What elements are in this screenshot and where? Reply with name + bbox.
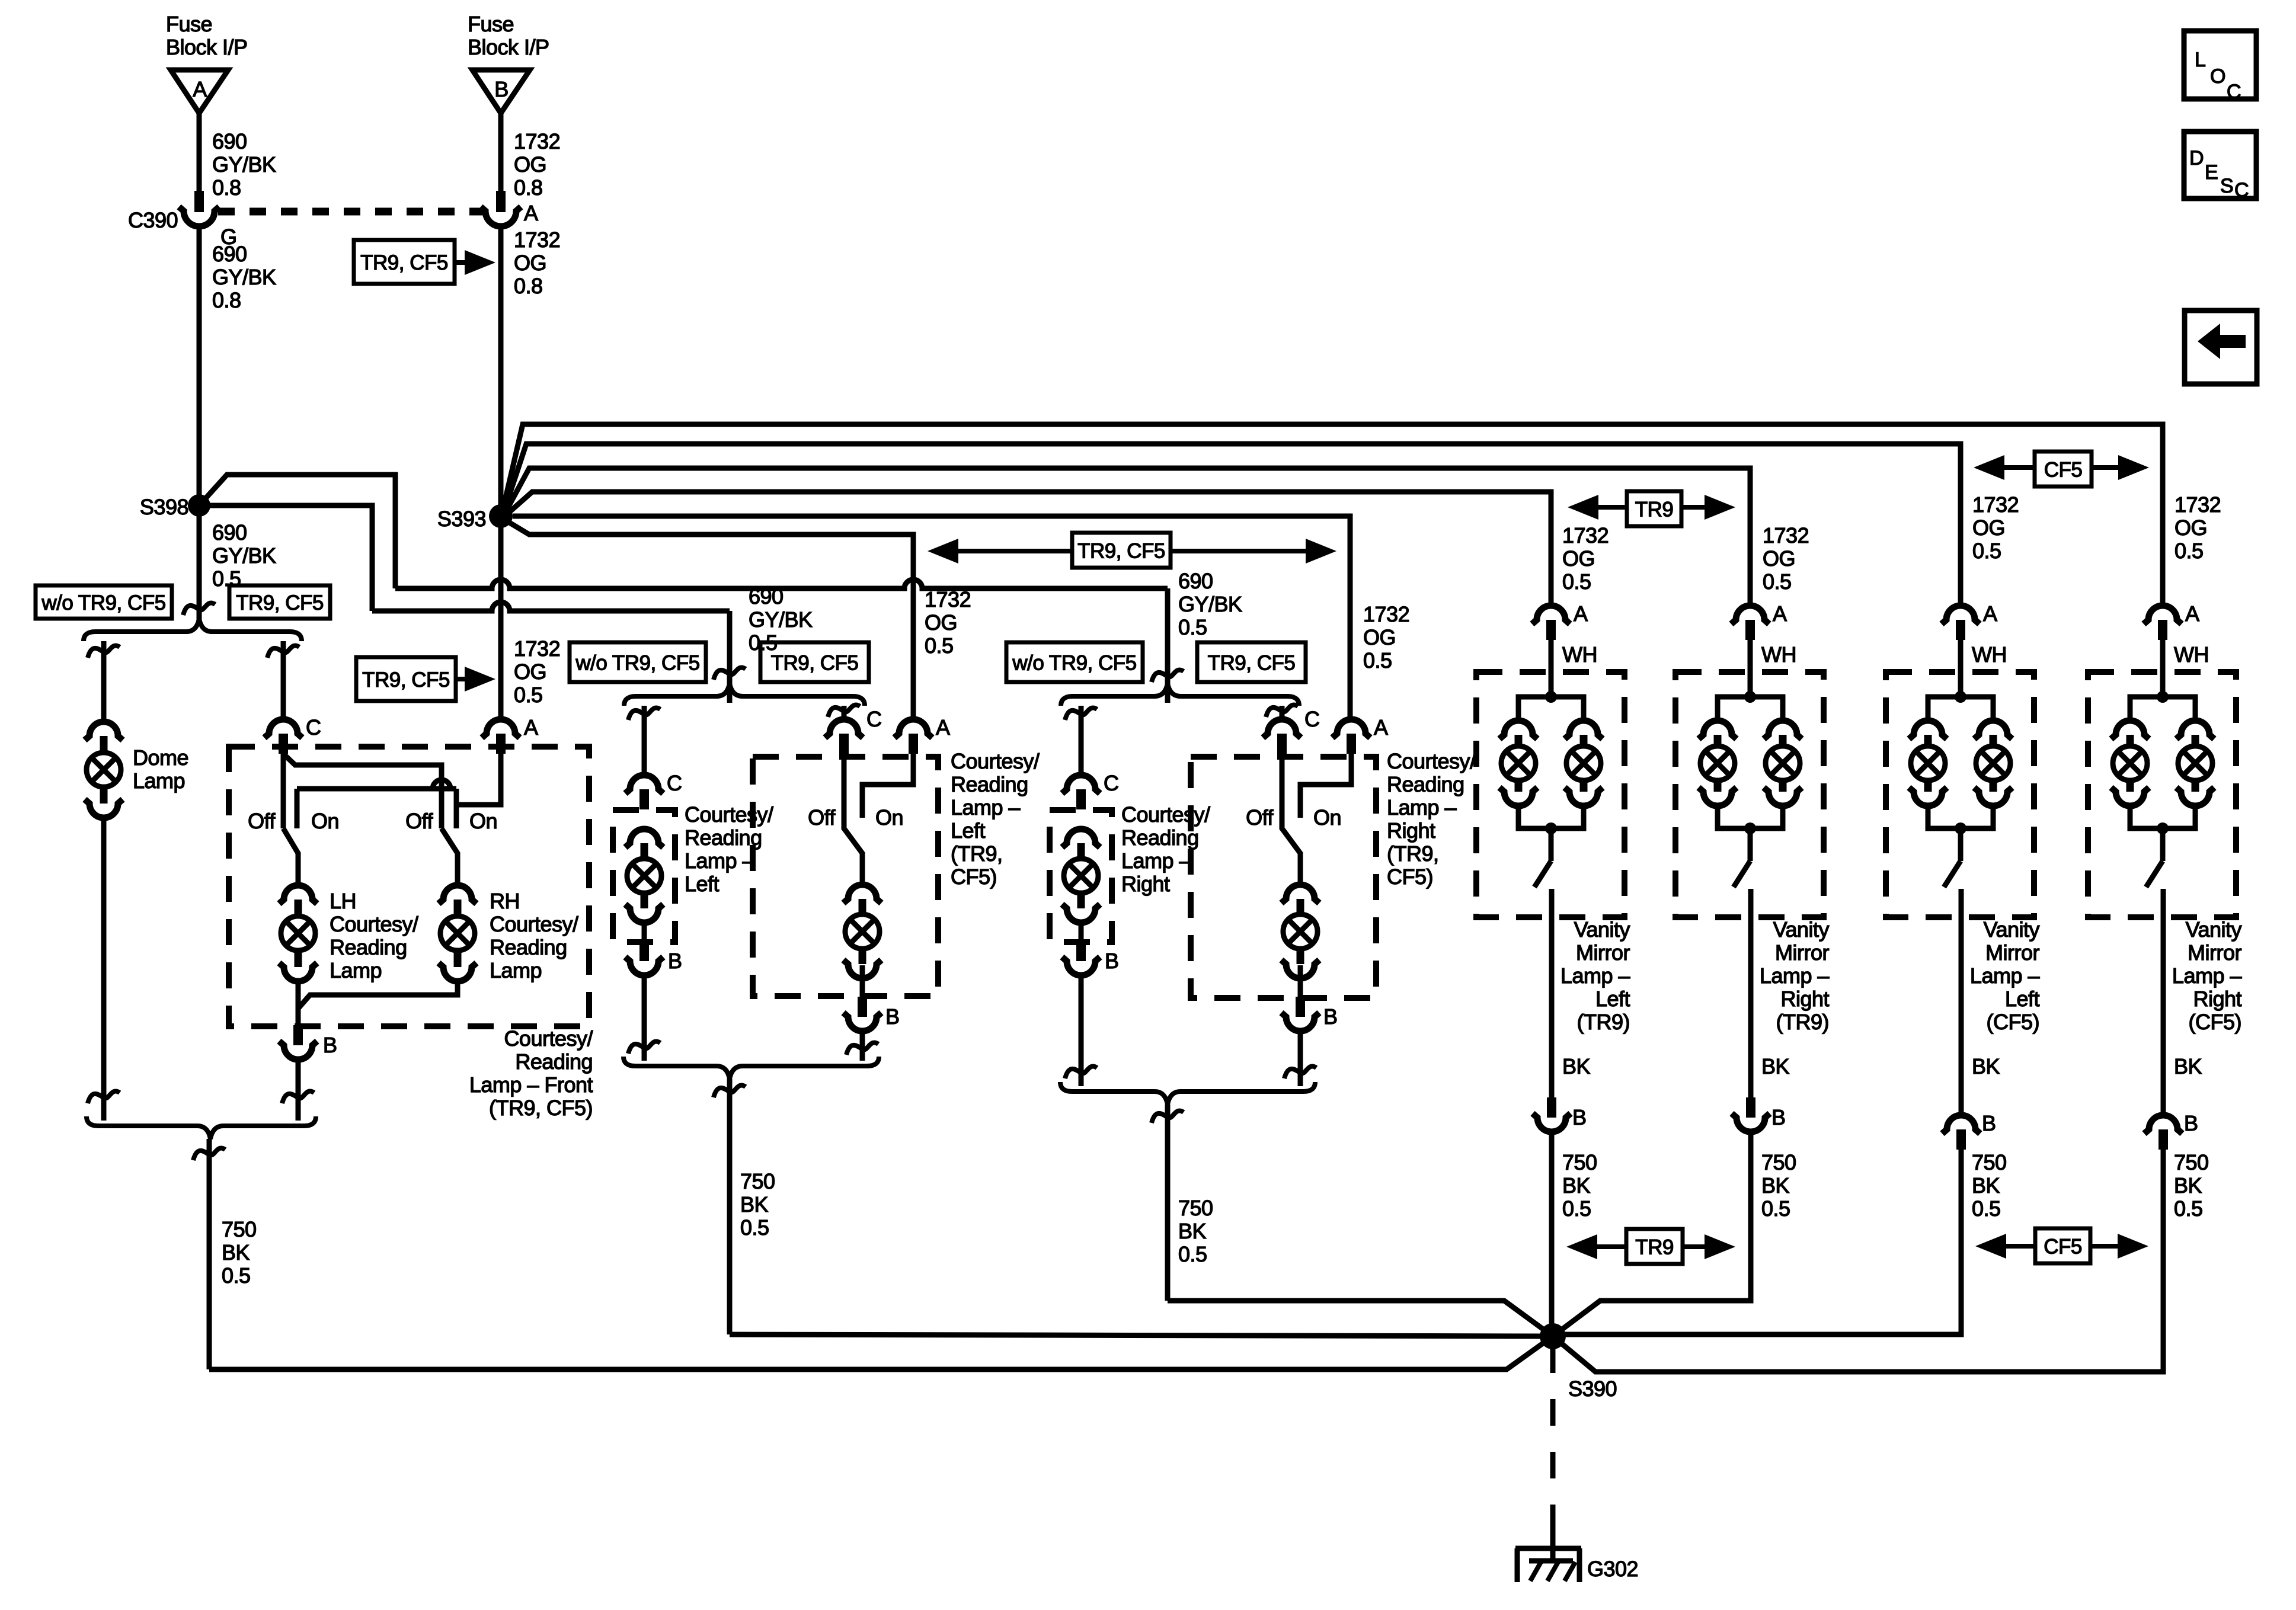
svg-text:A: A [2185,601,2199,626]
svg-text:B: B [885,1004,900,1029]
svg-text:0.5: 0.5 [222,1263,251,1288]
splice S390 [1540,1323,1617,1401]
svg-text:750: 750 [1562,1150,1597,1174]
svg-text:0.8: 0.8 [212,175,241,200]
svg-text:Reading: Reading [1387,772,1464,796]
svg-text:Courtesy/: Courtesy/ [504,1026,593,1051]
svg-text:Off: Off [248,809,276,833]
switch in vanity left CF5 [1944,828,1961,917]
brace: right courtesy group output [1060,1082,1315,1105]
connector: vanity right CF5 pin B [2144,1111,2198,1150]
switch in vanity right TR9 [1734,828,1751,917]
wire: right box pin A to On contact [1300,754,1351,818]
svg-text:Right: Right [1121,872,1170,896]
svg-text:WH: WH [1972,642,2007,667]
svg-text:(TR9, CF5): (TR9, CF5) [489,1096,593,1120]
wire: S393 down to courtesy/reading lamp front pin A [498,516,504,719]
connector: vanity mirror lamp left TR9 pin A [1532,601,1588,640]
svg-text:GY/BK: GY/BK [212,265,276,289]
svg-text:0.8: 0.8 [514,175,543,200]
switch in vanity left TR9 [1534,828,1552,917]
svg-text:OG: OG [2175,516,2207,540]
svg-text:S390: S390 [1568,1377,1617,1401]
svg-text:TR9: TR9 [1635,1236,1674,1259]
vanity right CF5 right bulb [2176,721,2214,806]
svg-text:0.5: 0.5 [740,1215,769,1240]
svg-text:BK: BK [1562,1054,1591,1078]
label: vanity mirror lamp right CF5 [2172,917,2242,1034]
svg-text:OG: OG [925,610,957,635]
label 690 GY/BK 0.5 (left group) [749,584,813,655]
label 750 BK 0.5 (vanity right TR9) [1761,1150,1796,1221]
wire: dome lamp down to group brace [88,818,120,1121]
label 1732 OG 0.5 on wire to front lamp [514,636,560,707]
connector: right switch lamp pin B [1281,965,1338,1031]
svg-text:Lamp –: Lamp – [951,795,1021,820]
svg-text:C: C [306,715,321,740]
svg-text:Reading: Reading [1121,825,1199,850]
svg-text:Lamp –: Lamp – [1560,964,1630,988]
connector: front lamp pin A [482,715,538,754]
connector: vanity left CF5 pin B [1942,1111,1996,1150]
connector: right switch lamp pin A [1332,715,1388,754]
wire: right lamp (w/o) pin B to output brace [1065,975,1097,1086]
svg-text:Mirror: Mirror [1576,940,1630,965]
svg-text:BK: BK [1562,1173,1591,1198]
legend box DESC [2184,132,2256,201]
svg-text:Fuse: Fuse [468,12,514,36]
dome lamp [85,722,188,818]
svg-text:A: A [193,77,207,101]
svg-text:C: C [866,707,882,731]
wire: S393 to courtesy/reading lamp right (TR9,CF5) [513,516,1350,719]
wire: S393 to courtesy/reading lamp left (TR9,CF5) [506,520,913,719]
svg-text:BK: BK [2174,1173,2202,1198]
connector C390 pin A [481,191,538,226]
wire: S398 upper branch to right courtesy lamp group [199,475,1184,703]
svg-text:(TR9,: (TR9, [951,841,1003,866]
svg-text:CF5): CF5) [1387,865,1433,889]
label 690 GY/BK 0.5 (right group) [1178,569,1242,639]
brace: left courtesy lamp group feed [624,683,865,706]
dashed box: courtesy/reading lamp left (w/o) [613,810,675,942]
svg-text:0.5: 0.5 [1562,569,1591,594]
svg-text:On: On [875,805,903,830]
wire: S398 to dome lamp group brace [183,505,215,620]
wire: left box pin A to On contact [862,754,913,818]
svg-text:690: 690 [212,520,247,545]
svg-text:BK: BK [1972,1173,2000,1198]
label 750 BK 0.5 (vanity left CF5) [1972,1150,2007,1221]
wire/label WH into vanity left CF5 [1961,640,2007,697]
svg-text:Reading: Reading [951,772,1028,796]
svg-text:w/o TR9, CF5: w/o TR9, CF5 [41,591,165,614]
svg-text:Fuse: Fuse [166,12,212,36]
svg-text:750: 750 [2174,1150,2209,1174]
svg-text:(TR9): (TR9) [1577,1010,1630,1034]
splice S393 [437,504,513,531]
wire/label WH into vanity left TR9 [1551,640,1597,697]
wire: brace to right switch lamp pin C [1266,705,1298,719]
svg-text:GY/BK: GY/BK [212,543,276,568]
svg-text:690: 690 [212,242,247,266]
connector: vanity mirror lamp right TR9 pin A [1731,601,1787,640]
connector: left lamp (w/o) pin B [625,923,682,975]
svg-text:750: 750 [222,1217,257,1241]
svg-text:Reading: Reading [515,1049,593,1074]
dashed box: vanity mirror lamp left TR9 [1476,672,1625,917]
label: courtesy/reading lamp front [469,1026,593,1120]
svg-text:750: 750 [1761,1150,1796,1174]
label box w/o TR9, CF5 (left lamp) [570,642,706,682]
svg-text:WH: WH [1562,642,1597,667]
svg-text:Mirror: Mirror [1775,940,1829,965]
connector: vanity left TR9 pin B [1533,1097,1587,1132]
splice S398 [140,494,210,519]
svg-text:Mirror: Mirror [1985,940,2039,965]
svg-text:1732: 1732 [1363,602,1409,626]
svg-text:OG: OG [514,251,546,275]
svg-text:1732: 1732 [514,129,560,153]
connector: left switch lamp pin A [894,715,950,754]
svg-text:On: On [311,809,339,833]
switch (right box) Off/On [1246,754,1341,885]
svg-text:Vanity: Vanity [1773,917,1830,942]
connector: right switch lamp pin C [1263,707,1320,754]
label box w/o TR9, CF5 (dome lamp variant) [36,585,172,619]
brace: left courtesy group output [623,1057,879,1079]
svg-text:0.8: 0.8 [514,274,543,298]
svg-text:0.5: 0.5 [1178,615,1207,639]
svg-text:0.5: 0.5 [1562,1196,1591,1221]
svg-text:0.5: 0.5 [1972,539,2001,563]
svg-text:OG: OG [514,152,546,177]
wires: vanity right CF5 lamp branches [2130,691,2195,834]
annotation arrow TR9, CF5 (to front lamp wire) [356,657,495,701]
brace: right courtesy lamp group feed [1061,683,1299,706]
label: vanity mirror lamp left CF5 [1970,917,2040,1034]
dashed box: vanity mirror lamp right CF5 [2088,672,2236,917]
fuse block I/P feed B (triangle) [468,12,549,113]
wire: pin C to LH switch and RH switch feed [283,754,442,828]
svg-text:(CF5): (CF5) [2189,1010,2242,1034]
wires: vanity left TR9 lamp branches [1518,691,1584,834]
svg-text:C: C [2227,81,2241,103]
svg-text:Lamp –: Lamp – [1970,964,2040,988]
wire: left lamp (w/o) pin B to output brace [628,975,660,1061]
svg-text:BK: BK [1761,1173,1790,1198]
svg-text:0.5: 0.5 [1761,1196,1790,1221]
wire/label BK out of vanity left TR9 [1552,917,1591,1097]
switch RH (front) Off/On [405,809,497,884]
svg-text:0.8: 0.8 [212,288,241,312]
svg-text:Vanity: Vanity [2186,917,2242,942]
label: vanity mirror lamp left TR9 [1560,917,1630,1034]
svg-text:Off: Off [1246,805,1274,830]
svg-text:BK: BK [1178,1219,1207,1243]
wire: vanity right TR9 to splice S390 [1553,1132,1751,1336]
svg-text:(TR9,: (TR9, [1387,841,1439,866]
courtesy/reading lamp left bulb [625,829,663,923]
svg-text:0.5: 0.5 [925,633,954,658]
wire: C390 pin G to splice S398 [199,226,276,505]
annotation double arrow TR9, CF5 (courtesy lamps) [928,533,1336,568]
dashed box: courtesy/reading lamp front [229,747,589,1026]
svg-text:B: B [1572,1105,1587,1129]
svg-text:C: C [2234,179,2249,201]
annotation double arrow TR9 (vanity feeds) [1568,491,1735,526]
svg-text:B: B [2184,1111,2198,1135]
wire: S393 to vanity mirror lamp left (CF5) [504,444,1961,606]
label: courtesy/reading lamp left [685,802,773,896]
RH courtesy/reading lamp [439,885,578,982]
dashed link of in-line connector C390 [218,208,486,216]
svg-text:A: A [1983,601,1997,626]
label 690 GY/BK 0.5 at S398 [212,520,276,591]
svg-text:TR9, CF5: TR9, CF5 [236,591,324,614]
svg-text:690: 690 [1178,569,1213,593]
svg-text:0.5: 0.5 [1972,1196,2001,1221]
label 1732 OG 0.5 (right courtesy feed) [1363,602,1409,673]
annotation arrow TR9, CF5 (to wire 1732 OG) [354,240,495,284]
label 1732 OG 0.5 (vanity left CF5) [1972,492,2019,563]
svg-text:C390: C390 [128,208,178,232]
svg-text:BK: BK [2174,1054,2202,1078]
svg-text:Right: Right [1780,987,1829,1011]
dashed box: courtesy/reading lamp right (TR9,CF5) [1191,757,1376,998]
svg-text:B: B [494,77,509,101]
wire: fuse A to connector C390 [199,113,276,200]
label box TR9, CF5 (front lamp variant) [229,585,330,619]
svg-text:C: C [1304,707,1320,731]
courtesy/reading lamp right bulb [1062,829,1100,923]
svg-text:C: C [667,771,682,795]
connector: right lamp (w/o) pin C [1062,771,1119,809]
svg-text:0.5: 0.5 [1363,648,1392,673]
svg-text:Vanity: Vanity [1574,917,1630,942]
svg-text:0.5: 0.5 [1178,1242,1207,1266]
svg-text:A: A [936,715,950,740]
svg-text:Reading: Reading [490,935,567,959]
svg-text:1732: 1732 [514,636,560,661]
svg-text:Lamp –: Lamp – [1121,849,1191,873]
label box w/o TR9, CF5 (right lamp) [1006,642,1143,682]
wires: vanity left CF5 lamp branches [1928,691,1993,834]
svg-text:On: On [1313,805,1341,830]
wire: left switch lamp pin B to output brace [846,1031,878,1061]
wire/label BK out of vanity right CF5 [2163,917,2202,1115]
wire: dome group to splice S390 [193,1139,1553,1369]
switch (left box) Off/On [808,754,903,885]
svg-text:Mirror: Mirror [2188,940,2241,965]
svg-text:0.5: 0.5 [1763,569,1792,594]
svg-text:OG: OG [514,660,546,684]
svg-text:S: S [2220,175,2233,197]
svg-text:B: B [1771,1105,1786,1129]
ground G302 [1515,1548,1638,1582]
connector: front lamp pin B [279,1025,337,1060]
svg-text:OG: OG [1763,546,1795,571]
svg-text:750: 750 [1972,1150,2007,1174]
wire: right courtesy group to splice S390 [1152,1105,1553,1336]
svg-text:Right: Right [1387,818,1435,843]
annotation double arrow TR9 (vanity grounds) [1566,1229,1735,1264]
svg-text:S393: S393 [437,507,486,531]
svg-text:(CF5): (CF5) [1987,1010,2040,1034]
svg-text:B: B [323,1033,337,1057]
svg-text:Lamp: Lamp [133,769,185,793]
svg-text:w/o TR9, CF5: w/o TR9, CF5 [575,652,699,675]
svg-text:Courtesy/: Courtesy/ [1121,802,1210,827]
wire: brace to dome lamp [88,641,120,721]
connector: vanity right TR9 pin B [1732,1097,1786,1132]
svg-text:Courtesy/: Courtesy/ [490,912,578,936]
label: courtesy/reading lamp right (TR9,CF5) [1387,749,1476,889]
wire: brace to front lamp pin C [267,641,299,719]
wire: front pin B down to group brace [282,1060,314,1121]
svg-text:TR9, CF5: TR9, CF5 [362,668,450,692]
wire: brace to left switch lamp pin C [828,705,860,719]
svg-text:Courtesy/: Courtesy/ [1387,749,1476,773]
svg-text:690: 690 [749,584,784,609]
svg-text:GY/BK: GY/BK [1178,592,1242,616]
connector: vanity mirror lamp right CF5 pin A [2144,601,2199,640]
vanity left CF5 right bulb [1974,721,2012,806]
svg-text:TR9, CF5: TR9, CF5 [771,652,859,675]
wire: S393 to vanity mirror lamp right (TR9) [505,468,1750,606]
label 750 BK 0.5 (vanity right CF5) [2174,1150,2209,1221]
label: vanity mirror lamp right TR9 [1760,917,1830,1034]
courtesy/reading lamp left (TR9,CF5) bulb [843,885,881,978]
vanity right TR9 right bulb [1764,721,1802,806]
svg-text:Off: Off [808,805,836,830]
svg-text:LH: LH [330,889,356,913]
wire: S398 lower branch to left courtesy lamp group [199,505,746,703]
svg-text:Off: Off [405,809,433,833]
connector: front lamp pin C [264,715,321,754]
wire: right switch lamp pin B to output brace [1284,1031,1316,1086]
svg-text:w/o TR9, CF5: w/o TR9, CF5 [1012,652,1136,675]
svg-text:Vanity: Vanity [1984,917,2040,942]
wires: vanity right TR9 lamp branches [1718,691,1783,834]
svg-text:Left: Left [1595,987,1630,1011]
svg-text:E: E [2205,161,2218,184]
courtesy/reading lamp right (TR9,CF5) bulb [1281,885,1319,978]
svg-text:B: B [1982,1111,1996,1135]
wire: brace to left lamp pin C [628,706,660,775]
svg-text:O: O [2210,65,2225,88]
svg-text:CF5: CF5 [2044,1235,2082,1259]
svg-text:GY/BK: GY/BK [749,607,813,632]
connector: left lamp (w/o) pin C [625,771,682,809]
svg-text:On: On [469,809,497,833]
svg-text:B: B [1105,949,1119,973]
wire: fuse B to connector C390 pin A [501,113,560,200]
svg-text:C: C [1104,771,1119,795]
svg-text:0.5: 0.5 [514,683,543,707]
brace: dome lamp group feed [84,619,302,641]
svg-text:D: D [2189,147,2204,169]
switch in vanity right CF5 [2146,828,2163,917]
svg-text:1732: 1732 [925,587,971,612]
svg-text:WH: WH [1761,642,1796,667]
switch LH (front) Off/On [248,809,339,884]
fuse block I/P feed A (triangle) [166,12,248,113]
connector: left switch lamp pin B [843,965,900,1031]
connector: vanity mirror lamp left CF5 pin A [1942,601,1997,640]
svg-text:TR9, CF5: TR9, CF5 [360,251,448,274]
svg-text:0.5: 0.5 [2175,539,2204,563]
svg-text:BK: BK [1761,1054,1790,1078]
wire: vanity left CF5 to splice S390 [1553,1150,1961,1334]
wire: S393 to vanity mirror lamp left (TR9) [507,492,1551,606]
svg-text:1732: 1732 [1562,523,1609,548]
svg-text:Left: Left [2005,987,2040,1011]
label 1732 OG 0.5 (vanity left TR9) [1562,523,1609,594]
wire: pin A to On contacts [297,754,501,828]
svg-text:1732: 1732 [1972,492,2019,517]
wire: left courtesy group to splice S390 [714,1079,1553,1336]
svg-text:GY/BK: GY/BK [212,152,276,177]
dashed box: courtesy/reading lamp right (w/o) [1050,810,1112,942]
wire: vanity left TR9 to splice S390 [1549,1132,1555,1336]
connector: left switch lamp pin C [825,707,882,754]
svg-text:TR9: TR9 [1635,498,1674,521]
legend box back-arrow [2185,311,2257,384]
svg-text:Block I/P: Block I/P [166,35,248,59]
svg-text:Block I/P: Block I/P [468,35,549,59]
svg-text:A: A [1574,601,1588,626]
wire/label WH into vanity right TR9 [1750,640,1796,697]
wire/label BK out of vanity right TR9 [1751,917,1790,1097]
label box TR9, CF5 (left lamp) [760,642,869,682]
svg-text:OG: OG [1972,516,2005,540]
label box TR9, CF5 (right lamp) [1197,642,1306,682]
vanity right TR9 left bulb [1699,721,1737,806]
svg-text:BK: BK [222,1240,250,1265]
svg-text:Courtesy/: Courtesy/ [685,802,773,827]
svg-text:A: A [1374,715,1388,740]
LH courtesy/reading lamp [279,885,418,982]
wire/label WH into vanity right CF5 [2163,640,2209,697]
brace: dome lamp group output [87,1116,316,1139]
svg-text:Lamp: Lamp [490,958,542,982]
wire: S390 to ground (dashed) [1550,1346,1556,1561]
svg-text:Lamp –: Lamp – [2172,964,2242,988]
svg-text:Left: Left [685,872,720,896]
label 1732 OG 0.5 (vanity right CF5) [2175,492,2221,563]
annotation double arrow CF5 (vanity grounds) [1975,1228,2148,1263]
svg-text:RH: RH [490,889,520,913]
svg-text:Left: Left [951,818,986,843]
svg-text:G302: G302 [1587,1557,1638,1581]
svg-text:BK: BK [1972,1054,2000,1078]
svg-text:OG: OG [1363,625,1396,649]
wire/label BK out of vanity left CF5 [1961,917,2000,1115]
dashed box: vanity mirror lamp left CF5 [1886,672,2034,917]
annotation double arrow CF5 (vanity feeds) [1974,452,2149,486]
connector: right lamp (w/o) pin B [1062,923,1119,975]
connector C390 pin G [128,191,237,249]
svg-text:CF5): CF5) [951,865,997,889]
svg-text:Right: Right [2193,987,2241,1011]
svg-text:A: A [1773,601,1787,626]
label: courtesy/reading lamp right [1121,802,1210,896]
svg-text:1732: 1732 [2175,492,2221,517]
svg-text:B: B [1323,1004,1338,1029]
svg-text:Reading: Reading [330,935,407,959]
svg-text:1732: 1732 [1763,523,1809,548]
